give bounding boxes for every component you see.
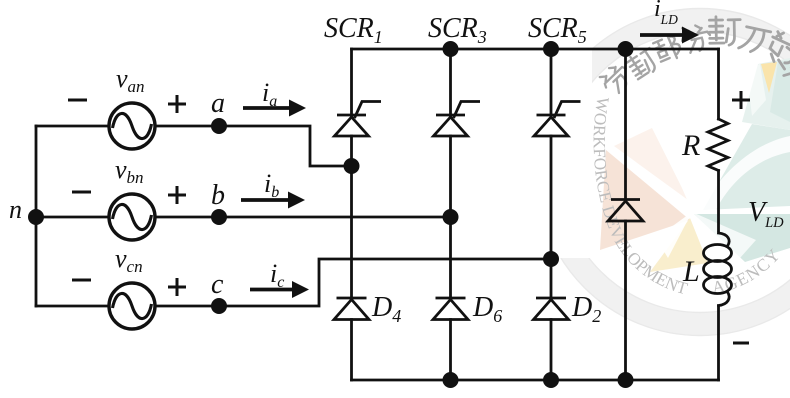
- bottom rail junction at D6: [443, 372, 459, 388]
- svg-text:van: van: [116, 64, 145, 96]
- voltage source vcn: [109, 283, 155, 329]
- svg-text:a: a: [211, 88, 225, 119]
- node b dot: [211, 209, 227, 225]
- wire van to node a to SCR1 junction: [155, 126, 352, 166]
- diode D6: [433, 298, 468, 320]
- diode D4: [334, 298, 369, 320]
- node n dot: [28, 209, 44, 225]
- wire left rail to vcn: [36, 305, 109, 308]
- SCR1 branch wires: [350, 49, 353, 380]
- svg-text:vcn: vcn: [115, 244, 143, 276]
- wire L to bottom rail: [717, 306, 720, 380]
- current arrow ic: [250, 281, 309, 298]
- SCR1 (thyristor): [335, 102, 382, 137]
- junction SCR1 leg / phase a: [344, 158, 360, 174]
- SCR3 branch wires: [449, 49, 452, 380]
- plus minus marks: vbn: [72, 186, 186, 204]
- svg-text:SCR3: SCR3: [428, 13, 487, 47]
- watermark logo background: [537, 9, 790, 336]
- resistor R: [708, 119, 728, 171]
- svg-text:ib: ib: [264, 169, 279, 201]
- node c dot: [211, 298, 227, 314]
- svg-text:SCR5: SCR5: [528, 13, 587, 47]
- wire vbn to node b to SCR3 junction: [155, 216, 451, 219]
- wire node n to vbn: [36, 216, 109, 219]
- svg-text:SCR1: SCR1: [324, 13, 383, 47]
- svg-text:b: b: [211, 180, 225, 211]
- plus minus marks: vcn: [72, 278, 186, 296]
- freewheeling diode Dm: [608, 200, 643, 222]
- plus mark load: [732, 91, 750, 109]
- svg-text:ic: ic: [270, 259, 284, 291]
- SCR3 (thyristor): [434, 102, 481, 137]
- top rail junction at SCR5: [543, 41, 559, 57]
- chinese arc glyph blobs: [598, 16, 790, 97]
- wire vcn to node c to SCR5 junction: [155, 259, 551, 306]
- freewheeling diode branch wires: [624, 49, 627, 380]
- svg-text:c: c: [211, 269, 224, 300]
- wire top rail: [352, 48, 719, 51]
- svg-text:ia: ia: [262, 78, 277, 110]
- diode D2: [534, 298, 569, 320]
- svg-text:L: L: [682, 255, 700, 288]
- voltage source vbn: [109, 194, 155, 240]
- svg-text:D6: D6: [472, 292, 502, 326]
- node a dot: [211, 118, 227, 134]
- current arrow ia: [243, 100, 306, 117]
- wire R to L: [717, 171, 720, 232]
- minus mark load: [733, 342, 749, 345]
- SCR5 branch wires: [550, 49, 553, 380]
- bottom rail junction at Dm: [618, 372, 634, 388]
- junction SCR3 leg / phase b: [443, 209, 459, 225]
- pinwheel wedges: [600, 58, 790, 272]
- junction SCR5 leg / phase c: [543, 251, 559, 267]
- top rail junction at SCR3: [443, 41, 459, 57]
- plus minus marks: van: [68, 95, 186, 113]
- current arrow iLD: [640, 27, 699, 44]
- bottom rail junction at D2: [543, 372, 559, 388]
- inductor L coil: [719, 233, 730, 246]
- svg-text:vbn: vbn: [115, 155, 144, 187]
- current arrow ib: [241, 192, 305, 209]
- wire right branch upper: [717, 49, 720, 119]
- top rail junction at Dm: [618, 41, 634, 57]
- wire bottom rail: [352, 379, 719, 382]
- svg-text:n: n: [9, 195, 22, 224]
- voltage source van: [109, 103, 155, 149]
- svg-text:R: R: [681, 129, 700, 162]
- SCR5 (thyristor): [534, 102, 581, 137]
- wire left rail: [35, 126, 38, 306]
- svg-text:D4: D4: [371, 292, 401, 326]
- wire left rail to van: [36, 125, 109, 128]
